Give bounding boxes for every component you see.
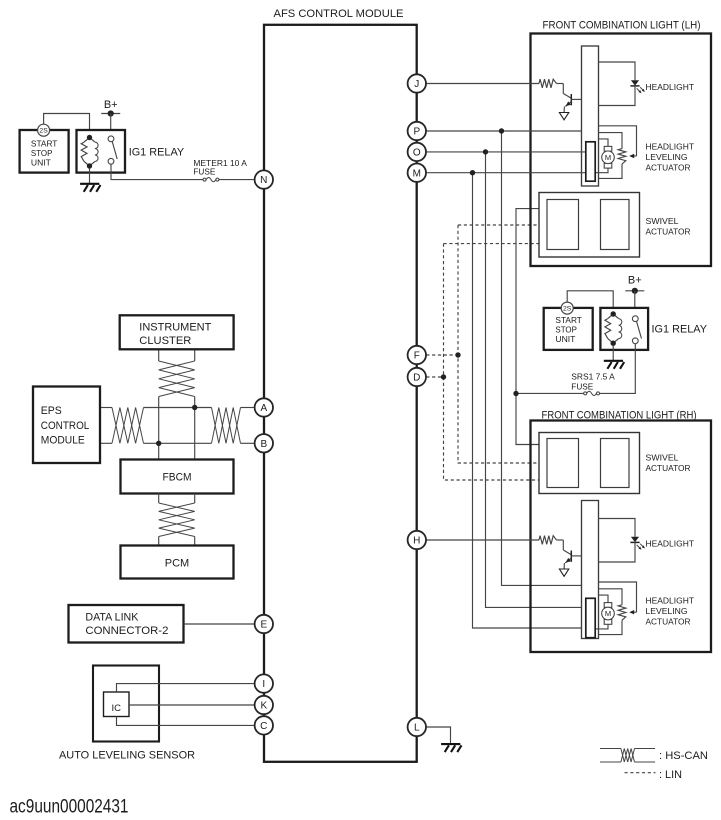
wire fuse to swivel branch <box>516 392 584 394</box>
start stop unit box 2 <box>544 308 593 350</box>
connector 2S circle 1 <box>38 124 50 136</box>
svg-text:START: START <box>555 316 582 325</box>
wire vertical to FBCM left <box>158 397 160 460</box>
wire CAN-H to pin A <box>241 407 255 409</box>
LIN wire F to LH swivel <box>458 224 547 226</box>
node I <box>255 674 273 692</box>
PCM box <box>121 546 234 579</box>
svg-text:M: M <box>605 153 611 162</box>
svg-text:IG1 RELAY: IG1 RELAY <box>652 324 708 336</box>
svg-text:CONNECTOR-2: CONNECTOR-2 <box>85 625 168 637</box>
resistor LH headlight <box>539 79 557 88</box>
legend HS-CAN wire bottom left <box>600 761 621 763</box>
wire pin J to resistor <box>426 83 539 85</box>
wire pin P to connector <box>426 130 582 132</box>
wire EPS CAN-H <box>100 407 112 409</box>
wire relay coil to ground <box>89 169 91 184</box>
LH swivel motor right <box>601 200 630 250</box>
EPS control module box <box>33 387 100 464</box>
wire relay switch to fuse <box>111 164 203 179</box>
svg-text:IG1 RELAY: IG1 RELAY <box>129 146 185 158</box>
node F <box>408 346 426 364</box>
wire IC to pin K <box>129 704 255 706</box>
svg-text:2S: 2S <box>39 128 48 135</box>
LED LH headlight <box>630 80 645 93</box>
B+ terminal 2 <box>625 275 644 294</box>
svg-text:LEVELING: LEVELING <box>646 606 688 616</box>
svg-text:SWIVEL: SWIVEL <box>646 216 679 226</box>
LH leveling actuator <box>595 126 637 179</box>
wire start-stop 2 to relay coil <box>567 291 613 314</box>
wire B+ to relay 2 switch <box>634 291 636 316</box>
legend LIN dashed wire <box>625 772 656 774</box>
LH light box <box>531 34 712 267</box>
LIN wire D to LH swivel <box>444 243 548 245</box>
relay 1 coil <box>81 135 98 169</box>
junction O <box>483 149 488 154</box>
RH swivel motor left <box>547 439 579 488</box>
FBCM box <box>121 460 234 494</box>
IG1 relay box 2 <box>600 308 648 350</box>
svg-text:HEADLIGHT: HEADLIGHT <box>646 539 695 549</box>
legend HS-CAN twisted pair <box>621 749 635 763</box>
svg-text:B: B <box>260 439 267 450</box>
wire cluster-right vertical <box>194 349 196 361</box>
wire B+ to relay switch <box>110 114 112 137</box>
connector 2S circle 2 <box>561 302 573 314</box>
wire M branch vertical <box>473 173 587 628</box>
label EPS CONTROL MODULE <box>41 405 90 446</box>
svg-text:I: I <box>262 679 265 690</box>
wire pin O to slider <box>427 151 586 153</box>
legend HS-CAN wire top right <box>635 748 656 750</box>
LIN wire pin D <box>426 376 443 378</box>
junction CAN-H <box>192 405 197 410</box>
svg-text:L: L <box>414 723 420 734</box>
svg-text:P: P <box>413 127 420 138</box>
fuse METER1 <box>203 178 219 182</box>
svg-text:E: E <box>260 620 267 631</box>
ground 2 <box>604 361 624 369</box>
svg-text:HEADLIGHT: HEADLIGHT <box>646 142 695 152</box>
LH swivel actuator box <box>539 193 640 258</box>
wire CAN-L middle <box>144 442 212 444</box>
svg-text:UNIT: UNIT <box>555 335 575 344</box>
AFS control module box <box>264 25 417 762</box>
LED RH headlight <box>630 537 645 550</box>
RH leveling actuator <box>595 582 637 635</box>
node N <box>255 170 273 188</box>
svg-text:STOP: STOP <box>555 326 577 335</box>
svg-text:MODULE: MODULE <box>41 435 85 447</box>
wire fuse to pin N <box>219 179 255 181</box>
svg-text:N: N <box>260 175 267 186</box>
twisted pair FBCM-PCM <box>159 503 195 537</box>
RH leveling slider <box>586 598 595 637</box>
relay 1 switch <box>108 136 117 164</box>
svg-text:CONTROL: CONTROL <box>41 420 90 432</box>
svg-text:B+: B+ <box>104 99 118 111</box>
RH swivel actuator box <box>539 433 640 494</box>
svg-text:B+: B+ <box>628 275 642 287</box>
relay 2 coil <box>605 311 622 346</box>
wire pin H to resistor <box>426 539 539 541</box>
wire IC to pin C <box>117 717 255 726</box>
svg-text:AUTO LEVELING SENSOR: AUTO LEVELING SENSOR <box>59 749 195 761</box>
wire DLC to pin E <box>184 623 255 625</box>
transistor LH headlight driver <box>557 84 582 120</box>
IG1 relay box 1 <box>77 130 126 173</box>
svg-text:SRS1 7.5 A: SRS1 7.5 A <box>571 373 615 382</box>
svg-text:ACTUATOR: ACTUATOR <box>646 617 691 627</box>
svg-text:2S: 2S <box>563 306 572 313</box>
label START STOP UNIT 2 <box>555 316 582 344</box>
legend HS-CAN wire bottom right <box>635 761 656 763</box>
svg-text:START: START <box>31 139 58 148</box>
wire to PCM right <box>194 537 196 546</box>
svg-text:EPS: EPS <box>41 405 62 417</box>
svg-text:FUSE: FUSE <box>571 382 593 391</box>
LIN wire D vertical <box>444 244 548 480</box>
node C <box>255 716 273 734</box>
svg-text:FBCM: FBCM <box>163 472 192 484</box>
auto leveling sensor box <box>93 666 159 742</box>
wire pin L to ground <box>426 727 451 744</box>
wire CAN-H middle <box>144 407 212 409</box>
node D <box>408 368 426 386</box>
wire FBCM-PCM left <box>158 494 160 504</box>
label START STOP UNIT 1 <box>31 139 58 167</box>
svg-text:CLUSTER: CLUSTER <box>139 335 191 347</box>
svg-text:SWIVEL: SWIVEL <box>646 452 679 462</box>
wire LH headlight feed <box>599 62 636 80</box>
RH swivel motor right <box>601 439 630 488</box>
resistor RH headlight <box>539 536 557 545</box>
svg-text:: LIN: : LIN <box>659 769 682 781</box>
wire swivel B+ to RH <box>516 394 547 445</box>
data link connector box <box>69 605 184 643</box>
wire relay 2 coil to ground <box>612 345 614 360</box>
label HEADLIGHT LEVELING ACTUATOR RH <box>646 596 695 627</box>
svg-text:M: M <box>413 168 421 179</box>
svg-text:INSTRUMENT: INSTRUMENT <box>139 321 211 333</box>
node H <box>408 531 426 549</box>
node J <box>408 74 426 92</box>
twisted pair cluster-FBCM <box>159 361 195 397</box>
transistor RH headlight driver <box>557 540 582 576</box>
wire vertical to FBCM right <box>194 397 196 460</box>
svg-text:ACTUATOR: ACTUATOR <box>646 163 691 173</box>
svg-text:FUSE: FUSE <box>193 168 215 177</box>
wire cluster-left vertical <box>158 349 160 361</box>
node O <box>408 143 426 161</box>
svg-text:D: D <box>413 373 420 384</box>
svg-text:C: C <box>260 721 267 732</box>
label SWIVEL ACTUATOR LH <box>646 216 691 237</box>
ground 1 <box>80 184 100 192</box>
node B <box>255 434 273 452</box>
node L <box>408 718 426 736</box>
LIN wire pin F <box>426 354 458 356</box>
svg-text:ac9uun00002431: ac9uun00002431 <box>10 796 129 817</box>
wire O branch vertical <box>486 152 587 607</box>
node P <box>408 122 426 140</box>
label SRS1 7.5 A FUSE <box>571 373 615 392</box>
svg-text:FRONT COMBINATION LIGHT (LH): FRONT COMBINATION LIGHT (LH) <box>543 20 701 32</box>
LIN wire F vertical <box>458 225 547 463</box>
LH swivel motor left <box>547 200 579 250</box>
node E <box>255 615 273 633</box>
junction F <box>455 352 460 357</box>
junction D <box>441 374 446 379</box>
ground 3 <box>441 744 461 752</box>
label INSTRUMENT CLUSTER <box>139 321 211 347</box>
wire pin M to slider <box>426 172 586 174</box>
junction P <box>499 128 504 133</box>
svg-text:HEADLIGHT: HEADLIGHT <box>646 596 695 606</box>
wire RH headlight feed <box>599 519 636 537</box>
wire CAN-L to pin B <box>241 442 255 444</box>
svg-text:ACTUATOR: ACTUATOR <box>646 227 691 237</box>
svg-text:LEVELING: LEVELING <box>646 152 688 162</box>
wire FBCM-PCM right <box>194 494 196 504</box>
twisted pair EPS <box>112 408 144 444</box>
svg-text:AFS CONTROL MODULE: AFS CONTROL MODULE <box>274 8 404 20</box>
wire RH headlight return <box>599 542 636 562</box>
svg-text:HEADLIGHT: HEADLIGHT <box>646 82 695 92</box>
svg-text:M: M <box>605 609 611 618</box>
svg-text:K: K <box>260 701 267 712</box>
wire EPS CAN-L <box>100 442 112 444</box>
twisted pair to module <box>212 408 241 444</box>
legend HS-CAN wire top left <box>600 748 621 750</box>
wire start-stop to relay coil <box>44 114 90 138</box>
label DATA LINK CONNECTOR-2 <box>85 611 168 637</box>
svg-text:O: O <box>413 148 421 159</box>
svg-text:: HS-CAN: : HS-CAN <box>659 750 708 762</box>
start stop unit box 1 <box>20 130 69 173</box>
svg-text:H: H <box>413 536 420 547</box>
svg-text:A: A <box>260 403 267 414</box>
label METER1 10 A FUSE <box>193 159 247 177</box>
svg-text:UNIT: UNIT <box>31 159 51 168</box>
wire P branch vertical <box>502 131 582 585</box>
wire LH headlight return <box>599 86 636 106</box>
svg-text:PCM: PCM <box>165 557 190 569</box>
IC box <box>104 692 130 717</box>
wire swivel B+ vertical <box>516 209 547 394</box>
RH light box <box>531 421 712 653</box>
node K <box>255 696 273 714</box>
junction M <box>470 170 475 175</box>
junction swivel B+ <box>513 391 518 396</box>
B+ terminal 1 <box>101 99 120 117</box>
svg-text:ACTUATOR: ACTUATOR <box>646 463 691 473</box>
wire to PCM left <box>158 537 160 546</box>
wire relay 2 switch to fuse <box>600 344 636 394</box>
svg-text:STOP: STOP <box>31 149 53 158</box>
svg-text:F: F <box>414 351 420 362</box>
svg-text:J: J <box>414 79 419 90</box>
wire IC to pin I <box>117 684 255 692</box>
svg-text:DATA LINK: DATA LINK <box>85 611 139 623</box>
fuse SRS1 <box>584 391 600 395</box>
label SWIVEL ACTUATOR RH <box>646 452 691 473</box>
label HEADLIGHT LEVELING ACTUATOR LH <box>646 142 695 173</box>
instrument cluster box <box>120 315 234 349</box>
svg-text:IC: IC <box>111 703 121 714</box>
node A <box>255 398 273 416</box>
LH connector strip <box>582 46 599 186</box>
relay 2 switch <box>632 316 641 344</box>
LH leveling slider <box>586 142 595 181</box>
junction CAN-L <box>156 441 161 446</box>
RH connector strip <box>582 501 599 639</box>
node M <box>408 164 426 182</box>
